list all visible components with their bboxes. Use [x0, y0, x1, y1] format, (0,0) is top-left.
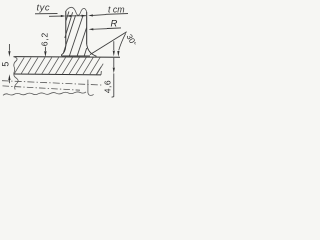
weld bottom band [62, 55, 91, 57]
inner arrowhead right [82, 15, 87, 17]
plate left break curve [14, 57, 19, 90]
horizontal plate hatch [14, 57, 103, 74]
horizontal plate top surface [14, 56, 121, 59]
right dim lower segment [113, 73, 115, 96]
left thickness lower shaft [8, 80, 10, 83]
t cm arrowhead [88, 14, 93, 16]
horizontal plate bottom edge [14, 73, 101, 76]
svg-text:6,2: 6,2 [39, 32, 49, 46]
30 degree slant line [90, 32, 127, 55]
dash-dot line A [2, 81, 103, 85]
right break J curve [88, 80, 94, 96]
R leader line [93, 28, 108, 31]
right dim bottom tick [112, 96, 114, 99]
right dim line upper [113, 41, 115, 50]
right dim lower arrowhead [113, 68, 115, 74]
vertical plate top break wavy [66, 7, 87, 15]
left weld bulge [62, 46, 66, 56]
inner arrowhead left [66, 15, 71, 17]
angle arc [119, 33, 126, 50]
weld fillet radius curve [87, 44, 97, 56]
wavy break line C [3, 92, 86, 95]
vertical plate left edge [65, 11, 67, 46]
tyc leader line [49, 15, 62, 17]
plate right end stub [100, 71, 102, 75]
svg-text:5: 5 [1, 62, 11, 67]
left thickness dim upper shaft [8, 44, 10, 51]
6,2 arrow shaft [44, 47, 46, 51]
vertical plate right edge [86, 12, 88, 44]
left thickness top arrowhead [8, 51, 10, 57]
inner dim line [66, 15, 86, 17]
right dim mid segment [113, 58, 115, 68]
svg-text:t cm: t cm [108, 5, 125, 15]
dash-dot line B [3, 86, 81, 90]
angle arc arrowhead [117, 51, 119, 57]
vertical plate hatch [63, 12, 86, 56]
background [0, 0, 136, 100]
svg-text:4,6: 4,6 [102, 80, 112, 93]
R underline [107, 27, 121, 30]
tyc arrowhead [61, 15, 66, 17]
6,2 arrowhead [44, 51, 46, 57]
right dim top arrowhead [113, 51, 115, 57]
t cm underline [106, 13, 128, 16]
t cm leader line [93, 14, 107, 17]
left thickness bottom arrowhead [8, 74, 10, 80]
svg-text:tyc: tyc [37, 2, 51, 13]
tyc underline [35, 13, 58, 15]
R arrowhead [89, 28, 94, 30]
